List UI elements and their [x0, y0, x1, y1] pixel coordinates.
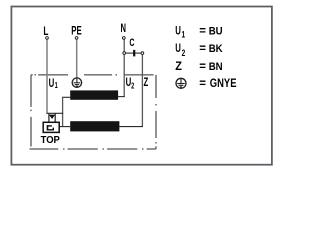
- svg-text:1: 1: [182, 29, 186, 39]
- border frame: [11, 7, 272, 165]
- winding 1: [70, 90, 118, 99]
- wire U2 vertical: [123, 55, 125, 97]
- svg-text:BU: BU: [209, 25, 223, 38]
- svg-text:Z: Z: [175, 61, 182, 73]
- svg-text:GNYE: GNYE: [210, 77, 237, 90]
- svg-text:1: 1: [55, 80, 58, 91]
- svg-text:BN: BN: [209, 60, 223, 73]
- terminal N: [122, 37, 125, 40]
- label U1: [49, 78, 58, 91]
- capacitor C: [126, 50, 141, 57]
- svg-text:U: U: [175, 43, 181, 56]
- svg-text:=: =: [199, 78, 206, 90]
- wire winding2 left: [59, 126, 70, 128]
- svg-text:Z: Z: [144, 77, 149, 90]
- svg-text:C: C: [129, 37, 134, 49]
- svg-text:U: U: [175, 25, 181, 38]
- earth symbol PE: [72, 78, 81, 87]
- node N junction: [123, 52, 126, 55]
- terminal PE: [75, 37, 78, 40]
- wire Z vertical: [141, 55, 143, 127]
- svg-text:2: 2: [131, 80, 134, 91]
- wire PE down: [76, 40, 78, 79]
- svg-text:N: N: [121, 23, 126, 36]
- label U2: [126, 77, 135, 91]
- svg-text:BK: BK: [209, 42, 223, 55]
- svg-text:=: =: [199, 26, 206, 38]
- legend label U1: [175, 25, 185, 39]
- wire winding2 right: [119, 126, 143, 128]
- terminal L: [46, 37, 49, 40]
- svg-text:U: U: [49, 78, 55, 91]
- motor boundary (dash-dot box): [30, 75, 157, 149]
- wire L down: [46, 40, 48, 114]
- wire winding1 left: [62, 96, 70, 98]
- svg-text:=: =: [199, 61, 206, 73]
- legend label U2: [175, 43, 186, 58]
- wire winding1 right: [118, 96, 125, 98]
- thermal contact TOP: [43, 113, 63, 132]
- legend earth symbol: [176, 78, 186, 88]
- svg-text:=: =: [199, 43, 206, 55]
- node Z terminal: [141, 52, 144, 55]
- svg-text:U: U: [126, 77, 132, 90]
- svg-text:TOP: TOP: [41, 135, 61, 146]
- svg-text:2: 2: [182, 48, 186, 58]
- wire junction vertical: [62, 97, 64, 126]
- winding 2: [70, 121, 119, 131]
- wire N down: [123, 40, 125, 52]
